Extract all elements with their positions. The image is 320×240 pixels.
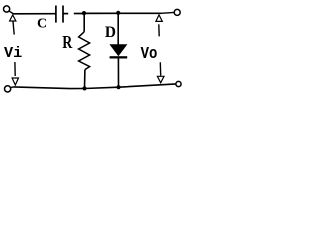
wire top, resistor junction to diode junction — [84, 12, 118, 14]
Vi annotation upper stub — [13, 21, 14, 34]
node junction top of R — [82, 11, 86, 15]
diode D cathode bar — [110, 56, 128, 58]
resistor R bottom lead — [84, 70, 86, 89]
input terminal bottom-left (open circle) — [5, 86, 14, 92]
svg-text:D: D — [105, 24, 116, 41]
label Vo — [141, 44, 158, 64]
diode D anode lead — [117, 13, 119, 45]
output terminal top-right (open circle) — [174, 9, 180, 15]
wire bottom — [13, 84, 176, 89]
svg-text:Vi: Vi — [4, 44, 22, 62]
svg-text:C: C — [37, 17, 47, 32]
diode D cathode lead — [117, 58, 119, 87]
wire top, capacitor to resistor junction (with scan break) — [63, 13, 85, 15]
wire top-right diagonal to output terminal — [161, 11, 174, 14]
Vi annotation arrow down (open arrowhead) — [12, 78, 18, 85]
resistor R top lead — [83, 14, 85, 32]
svg-text:R: R — [62, 34, 73, 53]
Vo annotation arrow down (open arrowhead) — [157, 76, 164, 83]
output terminal bottom-right (open circle) — [176, 81, 181, 86]
diode D triangle (cathode down) — [110, 45, 126, 56]
wire top, diode junction to output corner — [118, 12, 161, 14]
node junction top of D — [116, 11, 120, 15]
input terminal top-left (open circle) — [4, 6, 14, 14]
Vo annotation lower stub — [159, 62, 161, 75]
resistor R zigzag body — [79, 32, 90, 70]
resistor label R — [62, 34, 73, 53]
Vi annotation arrow up (open arrowhead) — [10, 15, 16, 21]
node junction bottom of R — [82, 86, 86, 90]
Vi annotation lower stub — [14, 62, 16, 76]
capacitor C plates — [56, 6, 63, 23]
node junction bottom of D — [116, 85, 120, 89]
Vo annotation arrow up (open arrowhead) — [156, 15, 162, 22]
Vo annotation upper stub — [158, 24, 160, 36]
svg-text:Vo: Vo — [141, 44, 158, 64]
wire top, left segment to capacitor — [13, 13, 56, 15]
